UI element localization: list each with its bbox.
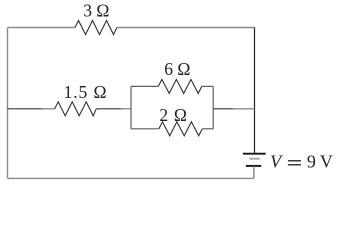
wire top right segment [117, 27, 255, 29]
wire bottom [8, 177, 254, 179]
wire middle box to right dark [213, 108, 233, 110]
wire middle after resistor dark [96, 108, 121, 110]
svg-text:2 Ω: 2 Ω [159, 105, 187, 125]
parallel box right side [212, 86, 214, 128]
svg-text:V9V: V9V [270, 152, 333, 172]
resistor 6 ohm [158, 79, 202, 93]
resistor 1.5 ohm [55, 102, 96, 116]
battery V middle short plate [249, 158, 259, 160]
wire right vertical [254, 28, 256, 154]
svg-text:6 Ω: 6 Ω [164, 59, 190, 79]
wire battery to bottom [253, 166, 255, 178]
battery V top plate [243, 153, 266, 155]
resistor 3 ohm [75, 21, 117, 35]
wire box top right stub [202, 85, 213, 87]
wire box top left stub [131, 85, 158, 87]
wire middle left lead gray [42, 108, 55, 110]
wire middle to right vertical gray [233, 108, 255, 110]
label equals sign of V = 9 V [288, 161, 301, 165]
battery V bottom plate [246, 165, 261, 167]
wire left border [7, 28, 9, 179]
wire box bottom left stub [131, 128, 159, 130]
resistor 2 ohm [159, 122, 202, 136]
wire middle left dark [8, 108, 43, 110]
node box left junction / parallel box left side [130, 86, 132, 128]
svg-text:1.5 Ω: 1.5 Ω [64, 82, 108, 102]
wire top left segment [8, 27, 76, 29]
svg-text:3 Ω: 3 Ω [83, 1, 109, 21]
wire middle to box gray [121, 108, 131, 110]
wire box bottom right stub [202, 128, 213, 130]
